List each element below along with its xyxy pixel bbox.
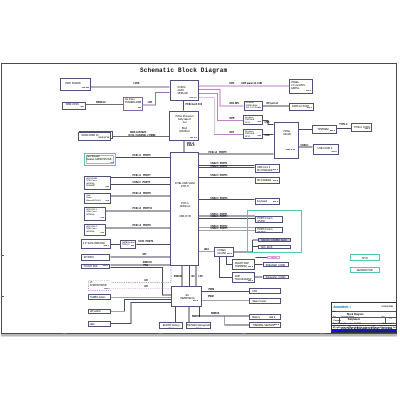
wire DIMM to CPU (DDR channel) xyxy=(111,135,169,137)
block LT strip dashed outline xyxy=(89,281,111,291)
label PWM water xyxy=(208,296,214,298)
block turbo button xyxy=(88,294,111,300)
label usb2 port5b xyxy=(210,228,227,230)
wire EC to BIOS debug xyxy=(188,307,190,322)
wire pwrddb dpl3 to AR xyxy=(263,134,274,136)
label usb2 port3 xyxy=(210,175,227,177)
label SMBUS pch xyxy=(174,276,182,278)
wire PCH to USB conn3 pair xyxy=(199,164,255,166)
block type-c conn xyxy=(351,123,372,132)
label usb port5 xyxy=(133,182,151,184)
wire KBM conn to LDDB xyxy=(86,104,123,106)
label usb2 port4 xyxy=(210,216,227,218)
block intel AR thunderbolt xyxy=(274,122,300,159)
block CPU xyxy=(169,111,199,141)
block water cooler xyxy=(249,298,281,304)
wire SATA to redriver to PCH xyxy=(111,243,170,245)
wire SSD to PCH xyxy=(111,195,170,197)
block combo jack xyxy=(258,238,291,242)
group audio jacks (teal frame) xyxy=(247,210,303,253)
label USB at DPL3 xyxy=(265,135,270,137)
date row xyxy=(333,323,361,325)
block pwrddb DPL2 xyxy=(243,115,263,125)
wire EC to EC/KBC debug xyxy=(175,307,177,322)
wire touchpad PS2 to EC xyxy=(110,268,171,295)
label SMB I2C xyxy=(143,262,152,264)
block teal note 2 xyxy=(350,267,380,274)
block subwoofer conn xyxy=(263,275,290,279)
size/doc row xyxy=(333,317,336,318)
wire TPS to type-c conn xyxy=(337,128,351,130)
block card reader xyxy=(84,153,116,166)
wire GPU-CPU PCIE x16 xyxy=(183,101,185,111)
wire PCH to port0 conn A pair xyxy=(199,215,255,217)
label pcie port8 xyxy=(133,193,151,195)
wire codec to smart amp xyxy=(226,257,231,265)
wire card reader to PCH xyxy=(116,157,170,159)
wire turbo button to EC xyxy=(111,296,172,298)
block teal note 1 xyxy=(350,254,380,261)
label TYPE-C xyxy=(339,124,347,126)
block fan xyxy=(249,288,281,294)
wire EC smbus to battery xyxy=(200,307,250,316)
wire GPU DP-A xyxy=(199,90,244,107)
label usb2 port6 xyxy=(210,198,227,200)
label PWM fan xyxy=(209,289,215,291)
wire WLAN pcie to PCH xyxy=(111,177,170,179)
wire amp to subwoofer xyxy=(255,276,263,278)
wire PCH to keyboard xyxy=(199,199,255,201)
wire lid switch to EC xyxy=(111,300,172,312)
watermark realschematics.com xyxy=(341,326,392,333)
label pcie port7 xyxy=(133,175,151,177)
block speaker conn xyxy=(263,262,290,267)
label USB at DPL2 xyxy=(265,122,270,124)
wire EC pwm water cooler xyxy=(202,300,249,302)
wire EC pwm fan xyxy=(202,291,249,293)
label I2C strip1 xyxy=(145,280,149,282)
wire PCH to camera xyxy=(199,177,255,179)
label PS2 xyxy=(144,265,148,267)
label usb3 port2 xyxy=(210,226,227,228)
wire SSD1 to PCH xyxy=(106,210,170,212)
label sata port0 xyxy=(138,241,153,243)
label usb2 port2 xyxy=(210,166,227,168)
label SPI xyxy=(143,254,147,256)
disclaimer text xyxy=(333,325,397,332)
label pcie port13 xyxy=(133,208,152,210)
left border tick marks xyxy=(1,255,4,256)
block GPU xyxy=(170,80,199,102)
block mic jack xyxy=(258,245,291,249)
wire PCH-EC bus 1 xyxy=(181,266,183,286)
wire codec to amp xyxy=(219,257,231,278)
wire LDDB to GPU xyxy=(143,92,169,104)
wire SSD2 to PCH xyxy=(106,227,170,229)
sheet title text xyxy=(140,67,260,74)
label DDR bus xyxy=(130,132,146,134)
block usb conn 2 xyxy=(313,144,339,155)
title row xyxy=(333,311,337,313)
label SMBUS battery xyxy=(211,313,219,315)
block sata hdd xyxy=(81,239,111,249)
label DPF xyxy=(230,132,235,134)
block LT strip (dashed) xyxy=(89,281,111,291)
block keyboard xyxy=(255,198,281,205)
label PCIE x4 PORT5 xyxy=(209,152,227,154)
label usb3 port1 xyxy=(210,214,227,216)
label KBMCLC xyxy=(96,102,106,104)
block port0 conn A xyxy=(255,216,282,223)
label I2C strip2 xyxy=(145,286,149,288)
block pwrddb DPL3 xyxy=(243,129,263,139)
wire CPU-PCH DMI xyxy=(183,141,185,152)
label pcie port9 xyxy=(133,225,151,227)
block DDR DIMM xyxy=(78,132,112,141)
block battery xyxy=(249,314,281,320)
wire PCH to port0 conn B pair xyxy=(199,227,255,229)
label EDP xyxy=(230,83,235,85)
wire sw box xyxy=(256,256,268,258)
wire PWR board to GPU (LVDS) xyxy=(91,86,170,88)
block TPS65982 xyxy=(312,125,337,134)
block wifi ssd1 xyxy=(84,207,106,221)
block usb conn3 charger xyxy=(255,164,281,173)
label LVDS xyxy=(134,83,140,85)
block thermal sensor xyxy=(249,322,281,328)
block camera xyxy=(255,177,281,184)
block ssd xyxy=(84,193,111,204)
block LED xyxy=(88,321,111,327)
label DPB xyxy=(230,118,235,120)
block PCH xyxy=(170,152,199,266)
label usb2 port1 xyxy=(210,163,227,165)
wire codec to jacks xyxy=(234,240,258,252)
block wifi ssd2 xyxy=(84,224,106,236)
block sw (pink) xyxy=(267,256,280,259)
label pcie port6 xyxy=(133,155,151,157)
label USB3.1 xyxy=(301,145,309,147)
wire pwrddb dpl2 to AR xyxy=(263,121,274,125)
block spi bios xyxy=(81,254,110,261)
TITLE-BLOCK xyxy=(331,302,397,333)
block EC/KBC debug xyxy=(159,322,183,329)
label HDA xyxy=(204,249,209,251)
block DDR DIMM stacked shadow xyxy=(79,131,113,140)
block sata redriver xyxy=(120,240,137,249)
block power board xyxy=(60,78,91,91)
label LPC pch xyxy=(198,276,203,278)
block display port xyxy=(289,103,314,111)
label SMBUS debug xyxy=(192,316,200,318)
bottom border tick marks xyxy=(62,333,67,335)
block no-driver power LDDB xyxy=(123,97,143,111)
block KBM conn xyxy=(62,102,86,110)
wire SPI bios to PCH xyxy=(110,256,170,258)
wire pwrflash to display port xyxy=(263,105,289,107)
wire WLAN usb to PCH xyxy=(111,184,170,186)
block codec xyxy=(214,247,234,257)
block pwrflash DPL1 DPL2 xyxy=(244,101,264,111)
block smart amp xyxy=(232,259,255,270)
wire PCH PCIE x4 to AR xyxy=(199,153,274,155)
block BIOS/EC debug card xyxy=(186,322,212,329)
sheet border frame xyxy=(1,63,397,335)
wire PCH-EC bus 3 xyxy=(195,266,197,286)
label PCIE Gen3 X16 xyxy=(186,104,202,106)
wire AR usb3.1 to usb conn2 xyxy=(299,146,313,148)
block lid switch xyxy=(88,309,111,314)
label DMI xyxy=(187,143,195,148)
wire PCH-EC bus 2 xyxy=(189,266,191,286)
wire GPU DP-F xyxy=(199,97,243,134)
label DP port x2 xyxy=(267,103,278,105)
block wifi wlan xyxy=(84,176,111,190)
block amp xyxy=(232,272,255,284)
wire GPU eDP to panel xyxy=(199,85,290,87)
wire GPU DP-B xyxy=(199,94,243,121)
blue band xyxy=(332,329,396,334)
block panel xyxy=(289,79,313,94)
label LVD at LDDB corner xyxy=(148,102,152,104)
wire LED to EC xyxy=(111,303,172,324)
wire LT strip I2C to PCH (dashed) xyxy=(111,266,171,283)
block touch pad xyxy=(81,264,110,270)
wire touchpad SMB to PCH xyxy=(110,264,170,266)
block EC xyxy=(171,286,202,307)
logo row xyxy=(333,305,351,309)
wire AR to TPS xyxy=(299,129,312,131)
label DPA DP1 xyxy=(230,103,240,105)
wire PCH HDA to codec xyxy=(199,251,215,253)
wire LT strip I2C to EC (dashed) xyxy=(111,288,172,290)
block port0 conn B xyxy=(255,227,282,234)
wire smart amp to speaker xyxy=(255,263,263,265)
label I2C pch xyxy=(191,276,195,278)
wire branch to thermal sensor xyxy=(225,316,250,325)
